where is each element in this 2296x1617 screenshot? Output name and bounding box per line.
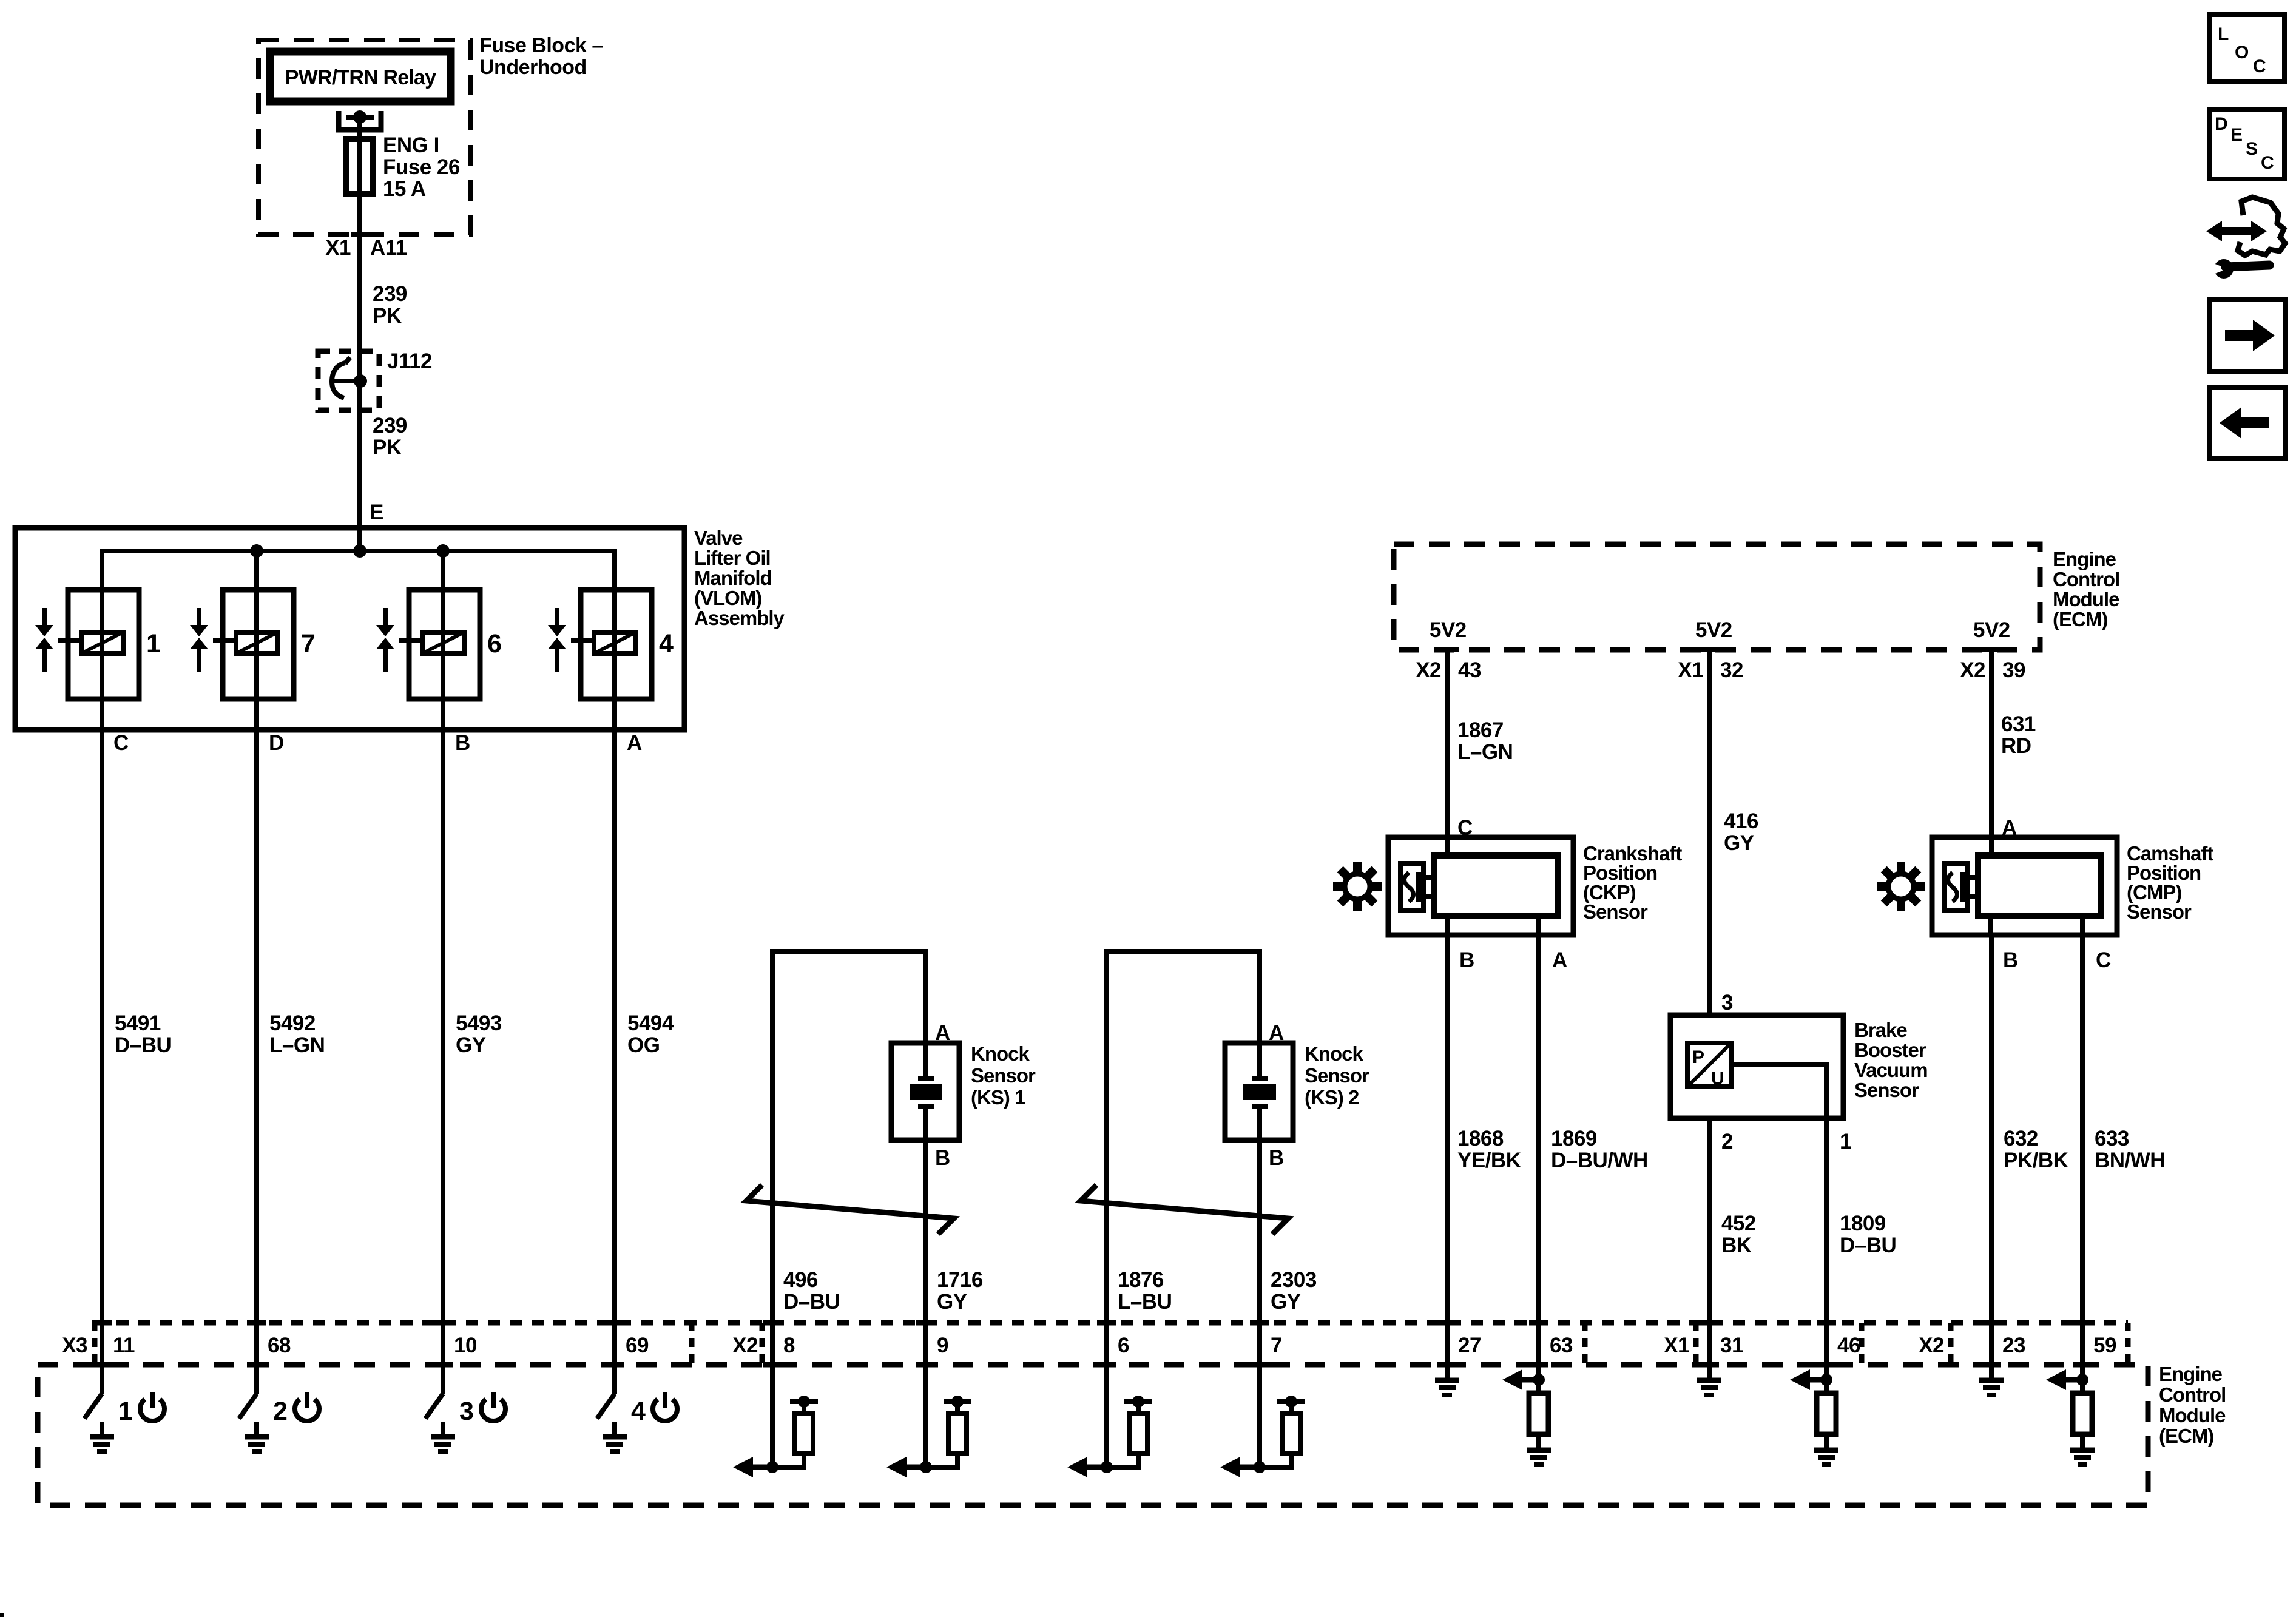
pin crossing ticks: [92, 1323, 2092, 1365]
svg-text:10: 10: [454, 1334, 477, 1357]
svg-text:Knock: Knock: [971, 1042, 1030, 1065]
svg-text:(VLOM): (VLOM): [694, 587, 761, 609]
svg-text:2303: 2303: [1271, 1268, 1317, 1292]
svg-text:GY: GY: [1271, 1290, 1301, 1314]
relay PWR/TRN Relay: [270, 52, 451, 101]
ECM ground pin 31: [1697, 1365, 1721, 1395]
svg-text:U: U: [1711, 1068, 1724, 1089]
VLOM pin letters C D B A: [113, 731, 642, 755]
svg-text:Sensor: Sensor: [1854, 1079, 1919, 1101]
wire circuit 5493: [443, 730, 502, 1365]
svg-text:RD: RD: [2001, 734, 2031, 758]
svg-text:X2: X2: [1919, 1334, 1944, 1357]
svg-text:1867: 1867: [1457, 718, 1504, 742]
svg-text:Underhood: Underhood: [479, 56, 587, 79]
svg-text:D–BU: D–BU: [1840, 1234, 1896, 1257]
ECM pin X1 32: [1678, 650, 1743, 682]
svg-text:PWR/TRN Relay: PWR/TRN Relay: [285, 66, 436, 89]
connector pins X1 A11: [325, 235, 407, 260]
wire 1868 YE/BK: [1447, 935, 1521, 1365]
svg-text:Brake: Brake: [1854, 1019, 1907, 1041]
svg-text:OG: OG: [627, 1033, 660, 1057]
svg-text:5V2: 5V2: [1695, 618, 1732, 642]
ECM driver switch 1: [84, 1365, 164, 1451]
svg-text:9: 9: [937, 1334, 948, 1357]
ECM signal termination pin 46: [1790, 1365, 1838, 1465]
wire 1809 D-BU: [1826, 1118, 1896, 1365]
svg-text:D–BU/WH: D–BU/WH: [1551, 1149, 1648, 1172]
ECM connector dotted rail: [95, 1320, 2128, 1326]
svg-text:B: B: [2003, 948, 2018, 972]
svg-text:631: 631: [2001, 712, 2036, 736]
svg-text:7: 7: [301, 629, 315, 658]
svg-text:B: B: [1269, 1146, 1284, 1170]
splice J112 symbol: [332, 357, 367, 398]
camshaft position CMP sensor: [1877, 837, 2213, 972]
junction dot relay pin: [353, 110, 366, 124]
svg-text:L: L: [2218, 24, 2229, 44]
svg-text:P: P: [1692, 1047, 1704, 1067]
svg-text:Control: Control: [2159, 1383, 2226, 1406]
svg-text:Valve: Valve: [694, 527, 743, 549]
svg-text:6: 6: [1118, 1334, 1129, 1357]
svg-text:1876: 1876: [1118, 1268, 1164, 1292]
svg-text:8: 8: [783, 1334, 795, 1357]
svg-text:2: 2: [1721, 1130, 1733, 1153]
icon harness wrench: [2206, 197, 2285, 279]
svg-text:X2: X2: [1960, 658, 1985, 682]
svg-text:46: 46: [1837, 1334, 1860, 1357]
svg-text:Sensor: Sensor: [971, 1064, 1036, 1087]
VLOM solenoid 6: [376, 590, 501, 699]
svg-text:1869: 1869: [1551, 1127, 1597, 1150]
svg-text:452: 452: [1721, 1212, 1756, 1235]
ECM driver switch 3: [425, 1365, 505, 1451]
svg-text:L–BU: L–BU: [1118, 1290, 1172, 1314]
svg-text:X3: X3: [62, 1334, 87, 1357]
wire 239 PK upper: [360, 235, 407, 381]
node E: [370, 501, 383, 524]
wire circuit 5491: [102, 730, 171, 1365]
svg-text:69: 69: [626, 1334, 649, 1357]
wire 631 RD: [1991, 650, 2036, 859]
svg-text:(KS) 2: (KS) 2: [1305, 1086, 1359, 1109]
relay output bracket: [339, 111, 381, 130]
wire 452 BK: [1709, 1118, 1756, 1365]
VLOM solenoid 1: [35, 590, 160, 699]
icon LOC box: [2209, 15, 2284, 82]
svg-text:416: 416: [1724, 809, 1758, 833]
wire circuit 5492: [257, 730, 325, 1365]
label VLOM assembly: [694, 527, 785, 629]
svg-text:A: A: [935, 1021, 950, 1045]
svg-text:E: E: [370, 501, 383, 524]
svg-text:5492: 5492: [269, 1011, 316, 1035]
wire 239 PK lower: [360, 381, 407, 551]
svg-text:23: 23: [2002, 1334, 2025, 1357]
svg-text:5493: 5493: [456, 1011, 502, 1035]
svg-text:496: 496: [783, 1268, 818, 1292]
wire relay to fuse: [357, 117, 362, 139]
ECM pin X2 43: [1416, 650, 1481, 682]
svg-text:1: 1: [1840, 1130, 1851, 1153]
svg-text:Manifold: Manifold: [694, 567, 772, 589]
wire solenoid-7 drop: [254, 551, 259, 730]
svg-text:Knock: Knock: [1305, 1042, 1364, 1065]
ECM driver switch 2: [239, 1365, 319, 1451]
svg-text:Module: Module: [2053, 588, 2119, 610]
connector labels: [62, 1334, 1944, 1357]
junction dot bus-D: [250, 544, 263, 558]
svg-text:X2: X2: [732, 1334, 758, 1357]
svg-text:Control: Control: [2053, 568, 2119, 590]
svg-text:A11: A11: [370, 236, 407, 260]
ECM ground pin 23: [1979, 1365, 2004, 1395]
svg-text:Sensor: Sensor: [2127, 900, 2192, 923]
svg-text:B: B: [1459, 948, 1474, 972]
VLOM internal bus wire: [102, 551, 615, 730]
svg-text:GY: GY: [456, 1033, 486, 1057]
svg-text:5494: 5494: [627, 1011, 674, 1035]
VLOM solenoid 7: [190, 590, 315, 699]
svg-text:3: 3: [459, 1397, 473, 1426]
engine control module bottom dashed box: [38, 1365, 2148, 1505]
ECM knock input termination pin 1526: [886, 1365, 971, 1477]
ECM driver switch 4: [597, 1365, 677, 1451]
svg-text:63: 63: [1550, 1334, 1573, 1357]
svg-text:O: O: [2235, 42, 2249, 62]
svg-text:BK: BK: [1721, 1234, 1752, 1257]
ECM signal termination pin 59: [2046, 1365, 2095, 1465]
ECM connector separators: [95, 1323, 2128, 1365]
svg-text:Booster: Booster: [1854, 1039, 1926, 1061]
svg-text:Fuse Block –: Fuse Block –: [479, 34, 603, 57]
svg-text:1: 1: [146, 629, 160, 658]
ECM knock input termination pin 1273: [733, 1365, 818, 1477]
svg-text:PK: PK: [373, 304, 402, 328]
svg-text:633: 633: [2095, 1127, 2129, 1150]
svg-text:Engine: Engine: [2159, 1363, 2223, 1385]
svg-text:Vacuum: Vacuum: [1854, 1059, 1928, 1081]
svg-text:PK: PK: [373, 436, 402, 459]
fuse ENG I Fuse 26 15 A: [346, 133, 460, 201]
svg-text:1: 1: [118, 1397, 132, 1426]
svg-text:X2: X2: [1416, 658, 1441, 682]
svg-text:27: 27: [1458, 1334, 1481, 1357]
svg-text:D–BU: D–BU: [783, 1290, 840, 1314]
svg-text:1716: 1716: [937, 1268, 983, 1292]
svg-text:(ECM): (ECM): [2159, 1425, 2213, 1447]
ECM pin X2 39: [1960, 650, 2025, 682]
svg-text:B: B: [935, 1146, 950, 1170]
svg-text:1868: 1868: [1457, 1127, 1504, 1150]
svg-text:J112: J112: [387, 349, 432, 373]
svg-text:GY: GY: [1724, 831, 1754, 855]
wire circuit 5494: [615, 730, 674, 1365]
svg-text:PK/BK: PK/BK: [2004, 1149, 2068, 1172]
svg-text:5491: 5491: [115, 1011, 161, 1035]
svg-text:Assembly: Assembly: [694, 607, 785, 629]
svg-text:68: 68: [268, 1334, 291, 1357]
net 5V2 labels: [1430, 618, 2010, 642]
wire 632 PK/BK: [1991, 935, 2068, 1365]
svg-text:E: E: [2230, 125, 2243, 145]
crankshaft position CKP sensor: [1333, 837, 1682, 972]
svg-text:632: 632: [2004, 1127, 2038, 1150]
svg-text:BN/WH: BN/WH: [2095, 1149, 2165, 1172]
svg-text:Fuse 26: Fuse 26: [383, 155, 460, 179]
svg-text:1809: 1809: [1840, 1212, 1886, 1235]
svg-text:X1: X1: [325, 236, 351, 260]
svg-text:32: 32: [1720, 658, 1743, 682]
svg-text:239: 239: [373, 282, 407, 306]
svg-text:2: 2: [273, 1397, 287, 1426]
wire 416 GY: [1709, 650, 1758, 1015]
ECM knock input termination pin 2076: [1220, 1365, 1305, 1477]
svg-text:C: C: [2253, 56, 2266, 76]
knock sensor KS1: [746, 951, 1036, 1365]
VLOM assembly box: [15, 528, 684, 730]
svg-text:6: 6: [487, 629, 501, 658]
svg-text:D: D: [2215, 114, 2227, 134]
svg-text:A: A: [1269, 1021, 1284, 1045]
svg-text:59: 59: [2093, 1334, 2116, 1357]
label Fuse Block Underhood: [479, 34, 603, 79]
svg-text:D–BU: D–BU: [115, 1033, 171, 1057]
svg-text:(ECM): (ECM): [2053, 608, 2107, 630]
junction dot bus-B: [436, 544, 450, 558]
svg-text:B: B: [455, 731, 470, 755]
svg-text:C: C: [2261, 153, 2274, 173]
svg-text:Lifter Oil: Lifter Oil: [694, 547, 771, 569]
ECM ground pin 27: [1435, 1365, 1459, 1395]
svg-text:(KS) 1: (KS) 1: [971, 1086, 1025, 1109]
svg-text:ENG I: ENG I: [383, 133, 439, 157]
svg-text:43: 43: [1458, 658, 1481, 682]
label ECM top: [2053, 548, 2119, 630]
wire solenoid-6 drop: [441, 551, 445, 730]
svg-text:39: 39: [2002, 658, 2025, 682]
svg-text:D: D: [269, 731, 284, 755]
svg-text:X1: X1: [1678, 658, 1703, 682]
svg-text:L–GN: L–GN: [1457, 740, 1513, 764]
ECM knock input termination pin 1824: [1067, 1365, 1152, 1477]
svg-text:4: 4: [631, 1397, 646, 1426]
svg-text:5V2: 5V2: [1430, 618, 1467, 642]
svg-text:239: 239: [373, 414, 407, 437]
page corner mark: [0, 1613, 4, 1617]
svg-text:C: C: [113, 731, 129, 755]
ECM pin numbers: [113, 1334, 2116, 1357]
ECM signal termination pin 63: [1502, 1365, 1551, 1465]
junction dot bus-E: [353, 544, 366, 558]
svg-text:3: 3: [1721, 991, 1733, 1014]
svg-text:S: S: [2246, 139, 2258, 159]
label ECM bottom: [2159, 1363, 2226, 1447]
knock sensor KS2: [1081, 951, 1369, 1365]
wire 633 BN/WH: [2082, 935, 2165, 1365]
icon DESC box: [2209, 110, 2284, 179]
svg-text:A: A: [627, 731, 642, 755]
svg-text:C: C: [2096, 948, 2111, 972]
svg-text:L–GN: L–GN: [269, 1033, 325, 1057]
svg-text:Engine: Engine: [2053, 548, 2116, 570]
svg-text:15 A: 15 A: [383, 177, 426, 201]
svg-text:Sensor: Sensor: [1583, 900, 1648, 923]
svg-text:4: 4: [659, 629, 674, 658]
splice J112 box: [318, 349, 432, 410]
svg-text:11: 11: [113, 1334, 135, 1357]
brake booster vacuum sensor box: [1670, 1015, 1928, 1118]
BBV pin labels 2 1: [1721, 1130, 1851, 1153]
fuse block underhood dashed box: [258, 40, 470, 235]
svg-text:X1: X1: [1664, 1334, 1689, 1357]
wire fuse to connector: [357, 194, 362, 235]
svg-text:31: 31: [1720, 1334, 1743, 1357]
svg-text:5V2: 5V2: [1973, 618, 2010, 642]
engine control module top dashed box: [1394, 544, 2040, 650]
VLOM solenoid 4: [548, 590, 674, 699]
svg-text:Module: Module: [2159, 1404, 2226, 1426]
svg-text:YE/BK: YE/BK: [1457, 1149, 1521, 1172]
svg-text:A: A: [1552, 948, 1567, 972]
svg-text:Sensor: Sensor: [1305, 1064, 1369, 1087]
wire 1869 D-BU/WH: [1539, 935, 1648, 1365]
icon back arrow box: [2209, 387, 2285, 459]
wire 1867 L-GN: [1447, 650, 1513, 859]
svg-text:7: 7: [1271, 1334, 1282, 1357]
icon forward arrow box: [2209, 300, 2285, 371]
svg-text:GY: GY: [937, 1290, 967, 1314]
